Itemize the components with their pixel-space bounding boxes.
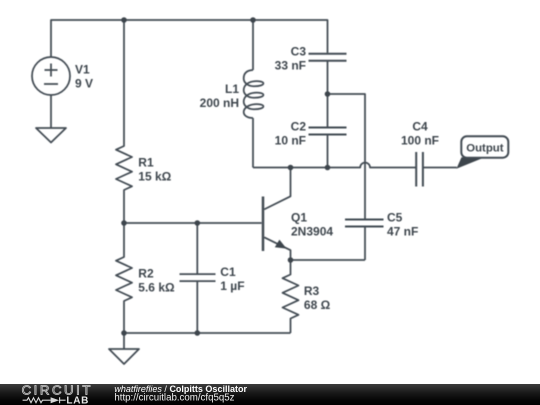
svg-text:LAB: LAB bbox=[66, 395, 89, 405]
svg-text:http://circuitlab.com/cfq5q5z: http://circuitlab.com/cfq5q5z bbox=[114, 393, 234, 404]
